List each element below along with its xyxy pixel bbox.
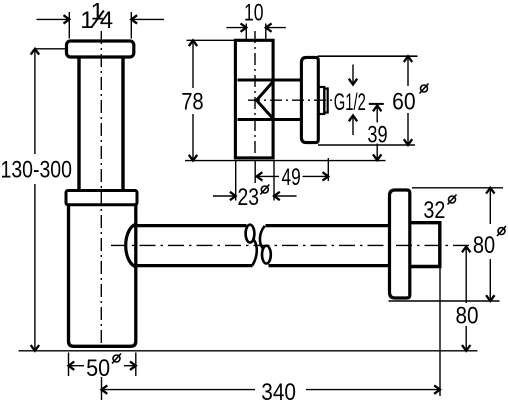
drill cone inside elbow <box>257 82 273 119</box>
vertical centerline of bottle <box>100 31 102 344</box>
elbow horizontal bore walls <box>238 80 301 120</box>
G1/2 thread stub <box>319 87 328 114</box>
wall flange lower right <box>390 190 410 298</box>
inlet flange (top cap of bottle trap) <box>67 41 134 57</box>
wall pipe stub lower right <box>410 223 440 267</box>
dimension 130-300 <box>31 49 66 351</box>
elbow body (section view top assembly) <box>235 40 273 158</box>
dimension 80 dia right <box>389 188 504 301</box>
svg-text:78: 78 <box>181 89 204 116</box>
svg-text:130-300: 130-300 <box>1 157 72 184</box>
svg-text:10: 10 <box>244 0 264 27</box>
elbow horizontal centerline <box>248 99 332 101</box>
dimension 60 dia <box>318 56 418 145</box>
outlet pipe right piece outline <box>266 226 391 266</box>
bottle body <box>69 205 136 346</box>
bottle collar nut <box>66 191 137 205</box>
pipe break symbol left loop <box>246 225 257 266</box>
svg-text:80: 80 <box>473 232 495 259</box>
elbow wall flange <box>301 57 318 142</box>
dimension 39 <box>369 104 384 160</box>
dimension 50 dia <box>69 353 136 377</box>
svg-text:60: 60 <box>392 89 416 116</box>
dimension 49 <box>255 158 328 183</box>
dimension 1 1/4 <box>37 12 165 39</box>
svg-text:23: 23 <box>238 184 260 211</box>
svg-text:50: 50 <box>86 355 110 382</box>
datum baseline <box>19 350 478 352</box>
svg-text:80: 80 <box>456 303 479 330</box>
svg-text:G1/2: G1/2 <box>334 89 366 116</box>
svg-text:32: 32 <box>423 197 445 224</box>
horizontal centerline of outlet pipe <box>111 244 471 246</box>
pipe break symbol right loop <box>260 226 271 264</box>
svg-text:340: 340 <box>261 379 296 400</box>
elbow bottom extension line <box>185 160 386 162</box>
svg-text:39: 39 <box>367 121 387 148</box>
dimension 340 <box>102 268 441 400</box>
elbow vertical centerline <box>254 31 256 160</box>
svg-text:4: 4 <box>100 7 113 34</box>
dimension G1/2 <box>349 65 357 136</box>
dimension 10 <box>227 23 286 39</box>
dimension 78 <box>187 40 235 160</box>
dimension 80 lower right <box>462 247 470 351</box>
inlet pipe walls <box>79 57 123 191</box>
outlet pipe dome cap inside bottle <box>126 224 138 267</box>
outlet pipe left piece outline <box>136 226 253 266</box>
svg-text:49: 49 <box>282 164 301 191</box>
dimension 23 dia <box>213 161 297 201</box>
